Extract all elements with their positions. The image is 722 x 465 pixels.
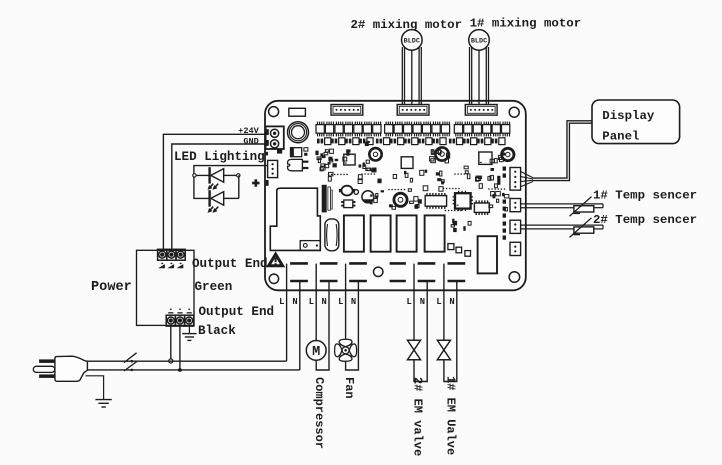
svg-text:Compressor: Compressor	[312, 377, 326, 449]
2# EM valve symbol	[407, 340, 420, 360]
PCB control board outline	[265, 101, 526, 290]
svg-text:2# EM valve: 2# EM valve	[411, 377, 425, 456]
label +24V	[238, 126, 259, 136]
output OUT2 compressor bars	[320, 263, 338, 281]
pads near D1	[277, 148, 308, 156]
relay K3	[397, 215, 417, 251]
wire N power box to mains	[178, 326, 182, 372]
svg-text:Green: Green	[195, 280, 233, 294]
compressor motor M	[306, 341, 326, 361]
connector J6 temp2 2pin	[510, 220, 521, 233]
transformer T1	[270, 188, 320, 250]
labels OUT2 L N	[309, 297, 327, 307]
ground symbol plug	[86, 376, 112, 407]
labels OUT6 L N	[436, 297, 454, 307]
power input terminal black	[166, 309, 194, 327]
wire 2# EM valve loop	[414, 264, 427, 382]
svg-text:Black: Black	[198, 324, 236, 338]
silkscreen dotted rows	[328, 173, 506, 211]
IC U7 DIP	[474, 200, 489, 215]
label Green	[195, 280, 233, 294]
label GND	[243, 136, 258, 146]
optocoupler row U10-U29	[316, 122, 510, 137]
svg-text:1# Temp sencer: 1# Temp sencer	[593, 188, 697, 202]
svg-text:L: L	[407, 297, 412, 307]
power output terminal green	[158, 249, 186, 268]
capacitor C2	[435, 147, 448, 160]
svg-text:BLDC: BLDC	[404, 37, 420, 45]
svg-text:N: N	[449, 297, 454, 307]
polarity plus sign	[252, 179, 259, 186]
SMD resistor-capacitor row	[317, 138, 505, 145]
output OUT1 power-in bars	[290, 263, 308, 281]
capacitor C4	[394, 193, 407, 206]
power supply box	[137, 250, 195, 325]
connector J-LED 3pin	[268, 160, 278, 177]
connector J1 (spare)	[331, 105, 363, 116]
svg-text:LED Lighting: LED Lighting	[174, 150, 265, 164]
LED lighting diodes LED1 LED2	[193, 166, 268, 213]
wire L power box to mains	[169, 326, 173, 363]
svg-text:L: L	[279, 297, 284, 307]
mains plug	[33, 356, 87, 381]
wire +24V to power supply	[163, 134, 265, 249]
label Output End (black)	[199, 305, 275, 319]
capacitor C6	[354, 190, 359, 195]
pads right column	[497, 167, 506, 240]
relay K4	[425, 215, 445, 251]
labels OUT3 L N	[338, 297, 356, 307]
wire mains L line	[87, 360, 286, 362]
svg-text:N: N	[351, 297, 356, 307]
svg-text:GND: GND	[243, 136, 258, 146]
svg-text:N: N	[420, 297, 425, 307]
label Fan	[342, 377, 356, 399]
IC U5 DIP	[425, 193, 446, 209]
toroid inductor L1	[288, 122, 309, 143]
mounting hole bottom-right	[509, 272, 520, 283]
2# temp sensor	[521, 213, 697, 238]
display panel box	[592, 100, 680, 144]
svg-text:L: L	[436, 297, 441, 307]
output OUT5 2# EM valve bars	[418, 263, 436, 281]
connector J5 temp1 2pin	[510, 199, 521, 212]
connector J7 spare 2pin	[510, 242, 521, 255]
warning triangle	[269, 254, 283, 266]
mounting hole bottom-left	[269, 274, 278, 283]
svg-text:2# Temp sencer: 2# Temp sencer	[593, 213, 697, 227]
capacitor C5	[339, 186, 355, 196]
label 1# EM Ualve	[443, 376, 457, 455]
svg-text:L: L	[309, 297, 314, 307]
pads left edge	[266, 152, 269, 186]
labels OUT1 L N	[279, 297, 297, 307]
fan motor	[335, 264, 359, 370]
svg-text:2# mixing motor: 2# mixing motor	[351, 18, 463, 32]
wire display cable	[521, 122, 592, 187]
label Compressor	[312, 377, 326, 449]
misc SMD components	[315, 141, 509, 232]
transistor Q1 TO-220	[288, 159, 309, 170]
output OUT6 1# EM valve bars	[448, 263, 466, 281]
ground symbol power box	[182, 326, 196, 340]
small chip U4	[341, 200, 355, 208]
svg-text:L: L	[338, 297, 343, 307]
svg-text:Display: Display	[602, 109, 655, 123]
wire OUT1 N	[299, 281, 301, 370]
capacitor C3	[502, 148, 514, 160]
svg-text:Power: Power	[91, 280, 132, 295]
IC U3	[479, 152, 492, 164]
connector J4 display 4pin	[510, 168, 521, 191]
capacitor C7 film	[325, 219, 339, 251]
mounting hole bottom-middle	[374, 267, 383, 276]
label Output End (green)	[192, 257, 268, 271]
cable break switch marks	[124, 353, 138, 371]
relay K5	[478, 236, 497, 273]
motor 1# mixing motor BLDC	[469, 17, 581, 105]
wire OUT1 L	[286, 264, 288, 361]
capacitor C1	[369, 148, 381, 160]
svg-text:1# EM Ualve: 1# EM Ualve	[443, 376, 457, 455]
capacitor C8	[362, 191, 374, 203]
IC U1	[344, 154, 355, 165]
relay K1	[344, 215, 364, 251]
mounting hole top-left	[269, 107, 279, 117]
svg-text:Fan: Fan	[342, 377, 356, 399]
IC U6 QFP	[453, 191, 473, 211]
labels OUT5 L N	[407, 297, 425, 307]
wire mains N line	[87, 369, 299, 371]
wire GND to power supply	[172, 144, 266, 249]
IC U2	[401, 157, 413, 169]
output OUT4 unused bars	[390, 263, 406, 281]
svg-text:N: N	[322, 297, 327, 307]
wire compressor loop	[316, 264, 329, 370]
1# temp sensor	[521, 188, 697, 216]
output OUT3 fan bars	[349, 263, 367, 281]
mounting hole top-right	[509, 107, 519, 117]
svg-text:N: N	[292, 297, 297, 307]
svg-text:BLDC: BLDC	[471, 37, 487, 45]
svg-text:Output End: Output End	[199, 305, 275, 319]
pads near K5	[448, 244, 471, 257]
svg-text:Panel: Panel	[602, 129, 639, 143]
svg-text:Output End: Output End	[192, 257, 268, 271]
silkscreen FEIMTECH label	[322, 185, 333, 213]
wire 1# EM valve loop	[444, 264, 457, 382]
diode D1	[291, 148, 302, 157]
terminal block CN-24V	[266, 126, 284, 149]
svg-text:M: M	[312, 345, 320, 360]
1# EM valve symbol	[437, 340, 450, 360]
svg-text:1# mixing motor: 1# mixing motor	[470, 17, 582, 31]
connector J3 1# mixing motor	[465, 105, 497, 116]
label Black	[198, 324, 236, 338]
label Power	[91, 280, 132, 295]
relay K2	[371, 215, 391, 251]
connector J2 2# mixing motor	[397, 105, 429, 116]
label 2# EM valve	[411, 377, 425, 456]
motor 2# mixing motor BLDC	[351, 18, 463, 104]
label LED Lighting	[174, 150, 265, 164]
connector J-aux blank	[289, 108, 306, 116]
